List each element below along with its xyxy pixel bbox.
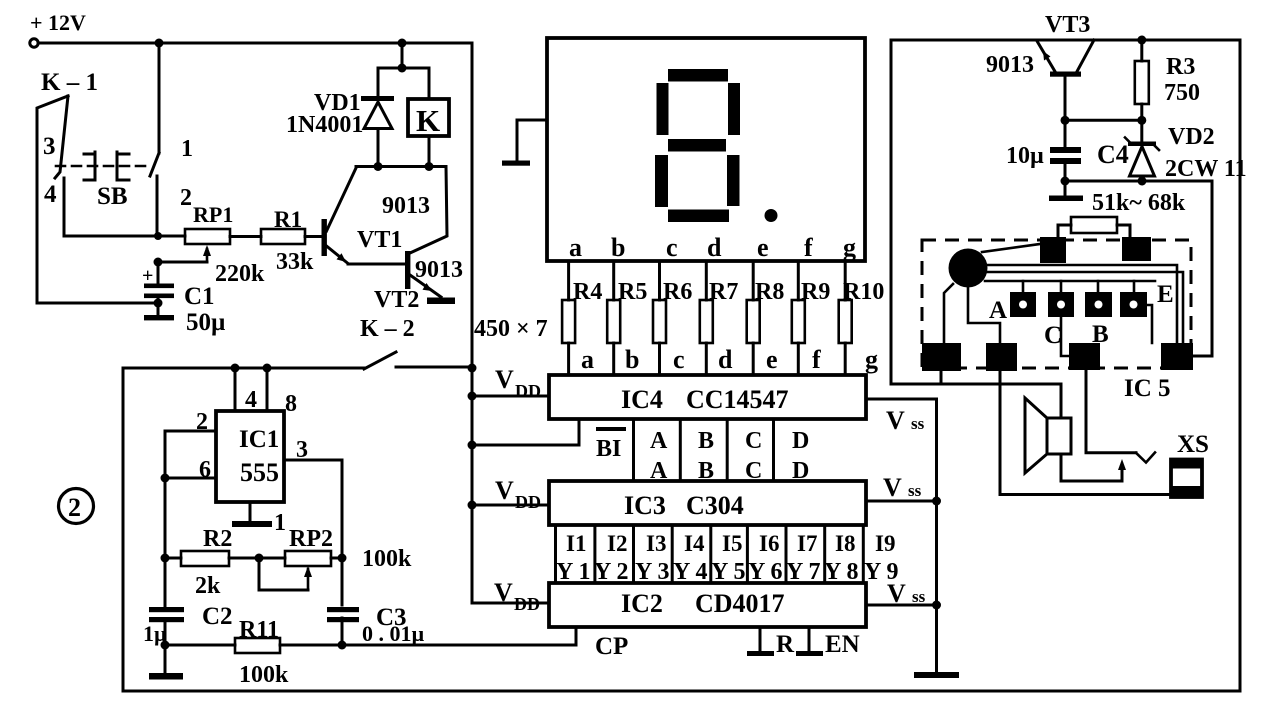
pin 1 ground	[232, 502, 286, 536]
svg-text:IC2: IC2	[621, 589, 663, 618]
svg-text:a: a	[581, 345, 594, 374]
svg-text:K: K	[416, 103, 440, 138]
junction on rail at VD1 branch	[398, 39, 407, 48]
relay K coil	[408, 68, 449, 167]
svg-text:I1: I1	[566, 531, 586, 556]
pad right of trimmer	[1122, 237, 1151, 261]
segment b (top-right)	[728, 83, 740, 135]
pushbutton SB dashed link	[56, 165, 152, 168]
ground at VT2 emitter	[427, 298, 455, 305]
svg-text:8: 8	[285, 391, 297, 417]
pin 6 wire	[161, 431, 217, 558]
svg-text:10µ: 10µ	[1006, 143, 1044, 169]
svg-text:555: 555	[240, 458, 279, 487]
ground under C4	[1049, 181, 1083, 201]
svg-text:E: E	[1157, 281, 1174, 308]
svg-text:50µ: 50µ	[186, 309, 225, 336]
svg-text:I9: I9	[875, 531, 895, 556]
resistor R4	[562, 279, 602, 343]
pin 8 wire	[263, 364, 298, 418]
svg-text:0 . 01µ: 0 . 01µ	[362, 621, 425, 646]
svg-text:d: d	[718, 345, 733, 374]
wire mic to pad 2	[968, 288, 1000, 343]
svg-text:Y 4: Y 4	[673, 559, 707, 585]
svg-text:CD4017: CD4017	[695, 589, 785, 618]
svg-text:R10: R10	[843, 279, 884, 305]
svg-text:D: D	[792, 428, 809, 454]
display pin labels a-g	[569, 233, 856, 262]
pad 3	[1069, 343, 1100, 370]
label 450 x 7	[474, 316, 548, 342]
svg-text:K – 2: K – 2	[360, 316, 415, 342]
plug hook	[1136, 453, 1155, 463]
svg-text:4: 4	[245, 387, 257, 413]
svg-text:g: g	[865, 345, 878, 374]
svg-text:33k: 33k	[276, 249, 314, 275]
transistor VT1	[322, 168, 431, 264]
key E	[1120, 292, 1147, 317]
svg-text:VT2: VT2	[374, 287, 419, 313]
wire key E to pad 4	[1147, 305, 1152, 343]
svg-text:R: R	[776, 631, 795, 658]
ground bar at Vss bus bottom	[914, 672, 959, 678]
resistor R7	[700, 279, 739, 343]
svg-text:1: 1	[181, 136, 193, 162]
switch K-2 arm	[364, 352, 396, 369]
pin 3 wire	[284, 437, 342, 558]
svg-text:CP: CP	[595, 633, 628, 660]
svg-text:Y 8: Y 8	[824, 559, 858, 585]
junction on rail at SB branch	[155, 39, 164, 48]
svg-text:I5: I5	[722, 531, 742, 556]
resistor R10	[839, 279, 885, 343]
svg-text:I8: I8	[835, 531, 855, 556]
svg-text:IC1: IC1	[239, 426, 279, 453]
svg-text:A: A	[650, 428, 668, 454]
wire Vss IC4 to bus	[866, 398, 937, 401]
svg-text:9013: 9013	[986, 52, 1034, 78]
svg-text:C4: C4	[1097, 140, 1129, 169]
7-segment display box	[547, 38, 865, 261]
svg-text:BI: BI	[596, 436, 621, 462]
label K-2	[360, 316, 415, 342]
potentiometer RP2	[259, 526, 412, 590]
svg-text:R2: R2	[203, 526, 232, 552]
svg-text:IC3: IC3	[624, 491, 666, 520]
svg-text:DD: DD	[514, 594, 540, 614]
svg-text:VD2: VD2	[1168, 124, 1215, 150]
svg-text:C: C	[1044, 322, 1062, 349]
key stubs	[1023, 281, 1134, 292]
lower segment-node labels a-g	[581, 345, 878, 374]
labels A C B E	[989, 281, 1174, 349]
wires resistors to IC4	[569, 343, 846, 375]
svg-text:R6: R6	[663, 279, 692, 305]
node +12V label	[30, 10, 86, 35]
resistor R5	[607, 279, 647, 343]
svg-text:3: 3	[43, 133, 56, 160]
svg-text:I6: I6	[759, 531, 779, 556]
label Vss (IC3)	[883, 473, 922, 502]
svg-text:R9: R9	[801, 279, 830, 305]
svg-text:I3: I3	[646, 531, 666, 556]
svg-text:Y 7: Y 7	[786, 559, 820, 585]
wire VD1/K top link	[378, 43, 429, 73]
svg-text:a: a	[569, 233, 582, 262]
decimal point	[765, 209, 778, 222]
svg-text:V: V	[494, 578, 513, 607]
resistor R3	[1135, 40, 1200, 120]
svg-text:B: B	[698, 428, 714, 454]
svg-text:9013: 9013	[382, 193, 430, 219]
svg-text:I4: I4	[684, 531, 705, 556]
wire R1 to VT1 base	[305, 235, 322, 238]
wire VT3 base link	[1061, 116, 1147, 125]
svg-text:1: 1	[274, 510, 286, 536]
svg-text:e: e	[766, 345, 778, 374]
svg-text:C2: C2	[202, 603, 233, 630]
svg-text:b: b	[611, 233, 625, 262]
switch K-1	[37, 69, 98, 303]
wire VDD to IC2	[472, 602, 549, 605]
svg-text:A: A	[989, 297, 1007, 324]
label BI with overline	[596, 427, 626, 462]
svg-text:Y 6: Y 6	[748, 559, 782, 585]
label Vss (IC4)	[886, 406, 925, 435]
svg-text:c: c	[673, 345, 685, 374]
wire +12V rail	[38, 42, 472, 45]
svg-text:R1: R1	[274, 207, 302, 232]
pushbutton SB contact brackets	[84, 136, 193, 211]
potentiometer RP1	[154, 202, 266, 287]
labels A B C D (row 1)	[650, 428, 809, 454]
op-amp U1: IC1 555 timer box	[216, 411, 284, 502]
connector XS	[1171, 431, 1209, 497]
svg-text:I2: I2	[607, 531, 627, 556]
svg-text:CC14547: CC14547	[686, 385, 789, 414]
wire frame-left to speaker	[891, 383, 1061, 386]
svg-text:DD: DD	[515, 492, 541, 512]
label VDD (IC2)	[494, 578, 540, 614]
label IC 5	[1124, 375, 1171, 402]
svg-text:220k: 220k	[215, 261, 265, 287]
wire RP1 to R1	[230, 235, 261, 238]
svg-text:9013: 9013	[415, 257, 463, 283]
svg-text:b: b	[625, 345, 639, 374]
segment e (bottom-left)	[655, 155, 668, 207]
svg-text:I7: I7	[797, 531, 817, 556]
svg-text:100k: 100k	[362, 546, 412, 572]
pin 2 wire	[165, 409, 216, 435]
labels A B C D (row 2)	[650, 458, 809, 484]
svg-text:C1: C1	[184, 283, 215, 310]
resistor R6	[653, 279, 692, 343]
resistor R2	[161, 526, 286, 599]
pin 4 wire	[231, 364, 258, 414]
dashed module outline IC5	[922, 240, 1191, 368]
wire CP into IC2	[576, 627, 628, 660]
segment d (bottom)	[668, 210, 729, 223]
pad 1	[922, 343, 961, 371]
svg-text:VT3: VT3	[1045, 12, 1090, 38]
capacitor C4	[1006, 120, 1129, 185]
label VDD (IC4)	[495, 365, 541, 401]
key C	[1048, 292, 1074, 317]
ground at display common	[502, 120, 547, 166]
svg-text:2: 2	[68, 493, 81, 522]
svg-text:R3: R3	[1166, 54, 1195, 80]
ground under C2	[149, 645, 183, 680]
wire mic to E pad (1)	[986, 265, 1177, 343]
ground R pin	[747, 627, 795, 658]
BCD column lines IC4-IC3	[634, 419, 774, 481]
svg-text:C304: C304	[686, 491, 744, 520]
wire mic to trimmer pad	[982, 244, 1040, 252]
ground under C1	[144, 315, 174, 320]
svg-text:6: 6	[199, 457, 211, 483]
svg-text:g: g	[843, 233, 856, 262]
wire pad1 to speaker rail	[940, 371, 943, 384]
svg-text:V: V	[886, 406, 905, 435]
wire pad3 to plug	[1086, 370, 1136, 453]
svg-text:2k: 2k	[195, 573, 221, 599]
pad left of trimmer	[1040, 237, 1066, 263]
labels Y1-Y9	[556, 559, 898, 585]
node +12V terminal	[30, 39, 38, 47]
svg-text:f: f	[812, 345, 821, 374]
figure number 2 circled	[59, 489, 94, 524]
svg-text:+ 12V: + 12V	[30, 10, 86, 35]
svg-text:2: 2	[180, 185, 192, 211]
svg-text:e: e	[757, 233, 769, 262]
svg-text:Y 2: Y 2	[594, 559, 628, 585]
svg-text:51k~ 68k: 51k~ 68k	[1092, 190, 1186, 216]
segment g (middle)	[668, 139, 726, 152]
svg-text:450 × 7: 450 × 7	[474, 316, 548, 342]
display pin wires a-g	[569, 261, 846, 300]
IC4 CC14547 box	[549, 375, 866, 419]
label Vss (IC2)	[887, 579, 926, 608]
svg-text:Y 1: Y 1	[556, 559, 590, 585]
column lines IC3-IC2	[556, 525, 864, 583]
svg-text:750: 750	[1164, 80, 1200, 106]
wire Vss IC2 to bus	[866, 601, 941, 610]
label VDD (IC3)	[495, 476, 541, 512]
pad 2	[986, 343, 1017, 371]
key A	[1010, 292, 1036, 317]
wire zener node to IC5 E pad	[1065, 181, 1212, 356]
transistor VT2	[374, 167, 463, 314]
wire Vss bus vertical	[935, 399, 938, 672]
microphone	[949, 249, 988, 288]
wire BI input	[472, 419, 579, 445]
speaker BL	[1025, 384, 1122, 481]
wire VT1 collector rail	[356, 162, 446, 171]
capacitor C2	[143, 558, 233, 650]
svg-text:DD: DD	[515, 381, 541, 401]
svg-text:C: C	[745, 428, 762, 454]
svg-text:c: c	[666, 233, 678, 262]
wire mic to pad 1	[944, 284, 953, 343]
svg-text:RP1: RP1	[193, 202, 233, 227]
wire rail to SB contact 1	[158, 43, 161, 153]
resistor R11	[165, 617, 576, 688]
svg-text:2CW 11: 2CW 11	[1165, 156, 1247, 182]
right block outer frame	[891, 40, 1240, 691]
svg-text:ss: ss	[911, 414, 925, 433]
transistor VT3	[986, 12, 1094, 120]
segment c (bottom-right)	[727, 155, 740, 206]
resistor 51k-68k	[1058, 190, 1186, 239]
svg-text:d: d	[707, 233, 722, 262]
resistor R9	[792, 279, 831, 343]
svg-text:100k: 100k	[239, 662, 289, 688]
svg-text:RP2: RP2	[289, 526, 333, 552]
svg-text:V: V	[495, 476, 514, 505]
IC2 CD4017 box	[549, 583, 866, 627]
wire pad2 to XS	[1000, 371, 1171, 495]
capacitor C1	[142, 262, 225, 336]
svg-text:IC 5: IC 5	[1124, 375, 1171, 402]
segment f (top-left)	[657, 83, 669, 135]
svg-text:V: V	[883, 473, 902, 502]
svg-text:R8: R8	[755, 279, 784, 305]
svg-text:Y 3: Y 3	[635, 559, 669, 585]
wire Vss IC3 to bus	[866, 497, 941, 506]
svg-text:IC4: IC4	[621, 385, 663, 414]
plug arrow	[1118, 459, 1126, 481]
svg-text:ss: ss	[908, 481, 922, 500]
switch SB moving arm	[150, 153, 159, 236]
labels I1-I9	[566, 531, 895, 556]
wire VDD bus vertical	[468, 43, 477, 603]
resistor R8	[747, 279, 785, 343]
wire node4 to RP1	[64, 232, 185, 240]
svg-text:V: V	[887, 579, 906, 608]
svg-text:SB: SB	[97, 183, 128, 210]
capacitor C3	[327, 558, 425, 646]
segment a (top)	[668, 69, 728, 82]
svg-text:XS: XS	[1177, 431, 1209, 458]
wire K-1 bottom to C1	[37, 302, 158, 305]
key B	[1085, 292, 1112, 317]
svg-text:K – 1: K – 1	[41, 69, 98, 96]
svg-text:1µ: 1µ	[143, 621, 167, 646]
svg-text:3: 3	[296, 437, 308, 463]
svg-text:1N4001: 1N4001	[286, 112, 363, 138]
wire VDD to IC4	[472, 395, 549, 398]
wire key C to pad 3	[1061, 317, 1069, 356]
ground EN pin	[796, 627, 860, 658]
pad 4	[1161, 343, 1193, 370]
svg-text:V: V	[495, 365, 514, 394]
svg-text:2: 2	[196, 409, 208, 435]
junction on top edge at R3	[1137, 36, 1146, 45]
svg-text:f: f	[804, 233, 813, 262]
svg-text:ss: ss	[912, 587, 926, 606]
svg-text:EN: EN	[825, 631, 860, 658]
svg-text:R4: R4	[573, 279, 602, 305]
svg-text:4: 4	[44, 181, 57, 208]
wire mic to key rail	[985, 280, 1155, 283]
wire mic to E pad (2)	[986, 272, 1183, 343]
svg-text:VT1: VT1	[357, 227, 402, 253]
svg-text:Y 5: Y 5	[711, 559, 745, 585]
diode VD1 1N4001	[286, 68, 394, 167]
wire VDD to IC3	[472, 504, 549, 507]
svg-text:R5: R5	[618, 279, 647, 305]
svg-text:R11: R11	[239, 617, 279, 643]
resistor R1	[261, 207, 314, 275]
big box around oscillator section	[123, 367, 1240, 691]
IC3 C304 box	[549, 481, 866, 525]
zener diode VD2 2CW11	[1125, 120, 1247, 185]
svg-text:R7: R7	[709, 279, 738, 305]
